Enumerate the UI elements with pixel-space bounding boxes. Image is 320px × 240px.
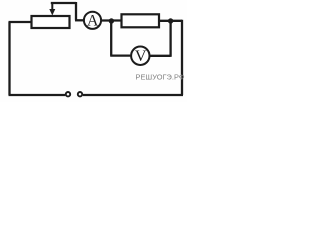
wire into rheostat left terminal: [9, 21, 32, 23]
resistor R body: [122, 14, 160, 27]
wire voltmeter branch right horizontal: [150, 55, 171, 57]
terminal right (battery clamp): [78, 92, 82, 96]
ammeter A: [84, 12, 101, 29]
svg-text:A: A: [87, 12, 99, 29]
svg-text:РЕШУОГЭ.РФ: РЕШУОГЭ.РФ: [136, 72, 185, 81]
wire bottom right segment: [83, 94, 183, 96]
node junction right of resistor R: [168, 18, 173, 23]
wire into ammeter: [75, 19, 84, 21]
rheostat R1 body: [32, 16, 70, 28]
rheostat R1 slider arrow: [49, 3, 55, 16]
svg-text:V: V: [135, 48, 147, 65]
wire voltmeter branch left horizontal: [110, 54, 130, 56]
voltmeter V: [131, 47, 149, 65]
terminal left (battery clamp): [66, 92, 70, 96]
wire left side vertical: [8, 22, 10, 95]
wire voltmeter branch left vertical: [110, 21, 112, 56]
wire resistor R to right corner: [159, 20, 182, 22]
wire ammeter to resistor R: [101, 19, 122, 21]
wire slider right vertical: [75, 2, 77, 20]
node junction left of resistor R: [109, 18, 114, 23]
wire slider top horizontal: [51, 2, 76, 4]
wire voltmeter branch right vertical: [169, 21, 171, 57]
wire bottom left segment: [9, 94, 66, 96]
wire right side vertical: [181, 20, 183, 95]
